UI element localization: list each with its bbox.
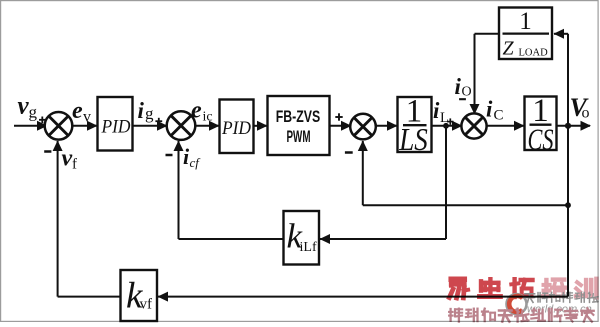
svg-text:i: i xyxy=(486,97,493,122)
svg-text:PID: PID xyxy=(221,118,251,139)
svg-text:vf: vf xyxy=(140,297,153,313)
svg-text:FB-ZVS: FB-ZVS xyxy=(276,108,321,126)
svg-text:e: e xyxy=(72,98,83,124)
svg-text:i: i xyxy=(433,98,440,123)
svg-text:O: O xyxy=(462,85,472,100)
svg-text:iLf: iLf xyxy=(300,240,317,255)
svg-text:L: L xyxy=(440,110,449,126)
svg-text:1: 1 xyxy=(519,8,532,35)
svg-text:f: f xyxy=(72,157,77,173)
svg-text:LOAD: LOAD xyxy=(519,48,549,59)
svg-text:i: i xyxy=(455,74,462,99)
svg-text:v: v xyxy=(83,109,91,126)
svg-text:e: e xyxy=(191,98,202,124)
svg-text:ic: ic xyxy=(203,110,213,125)
svg-text:LS: LS xyxy=(398,121,427,157)
svg-text:o: o xyxy=(582,105,590,122)
svg-text:i: i xyxy=(138,98,145,123)
svg-text:g: g xyxy=(29,103,38,122)
svg-text:C: C xyxy=(494,108,504,124)
svg-text:CS: CS xyxy=(528,122,554,157)
svg-text:PWM: PWM xyxy=(287,128,311,146)
svg-text:PID: PID xyxy=(101,117,131,138)
svg-text:g: g xyxy=(145,104,154,123)
svg-text:Z: Z xyxy=(503,38,515,60)
svg-text:v: v xyxy=(62,146,73,172)
